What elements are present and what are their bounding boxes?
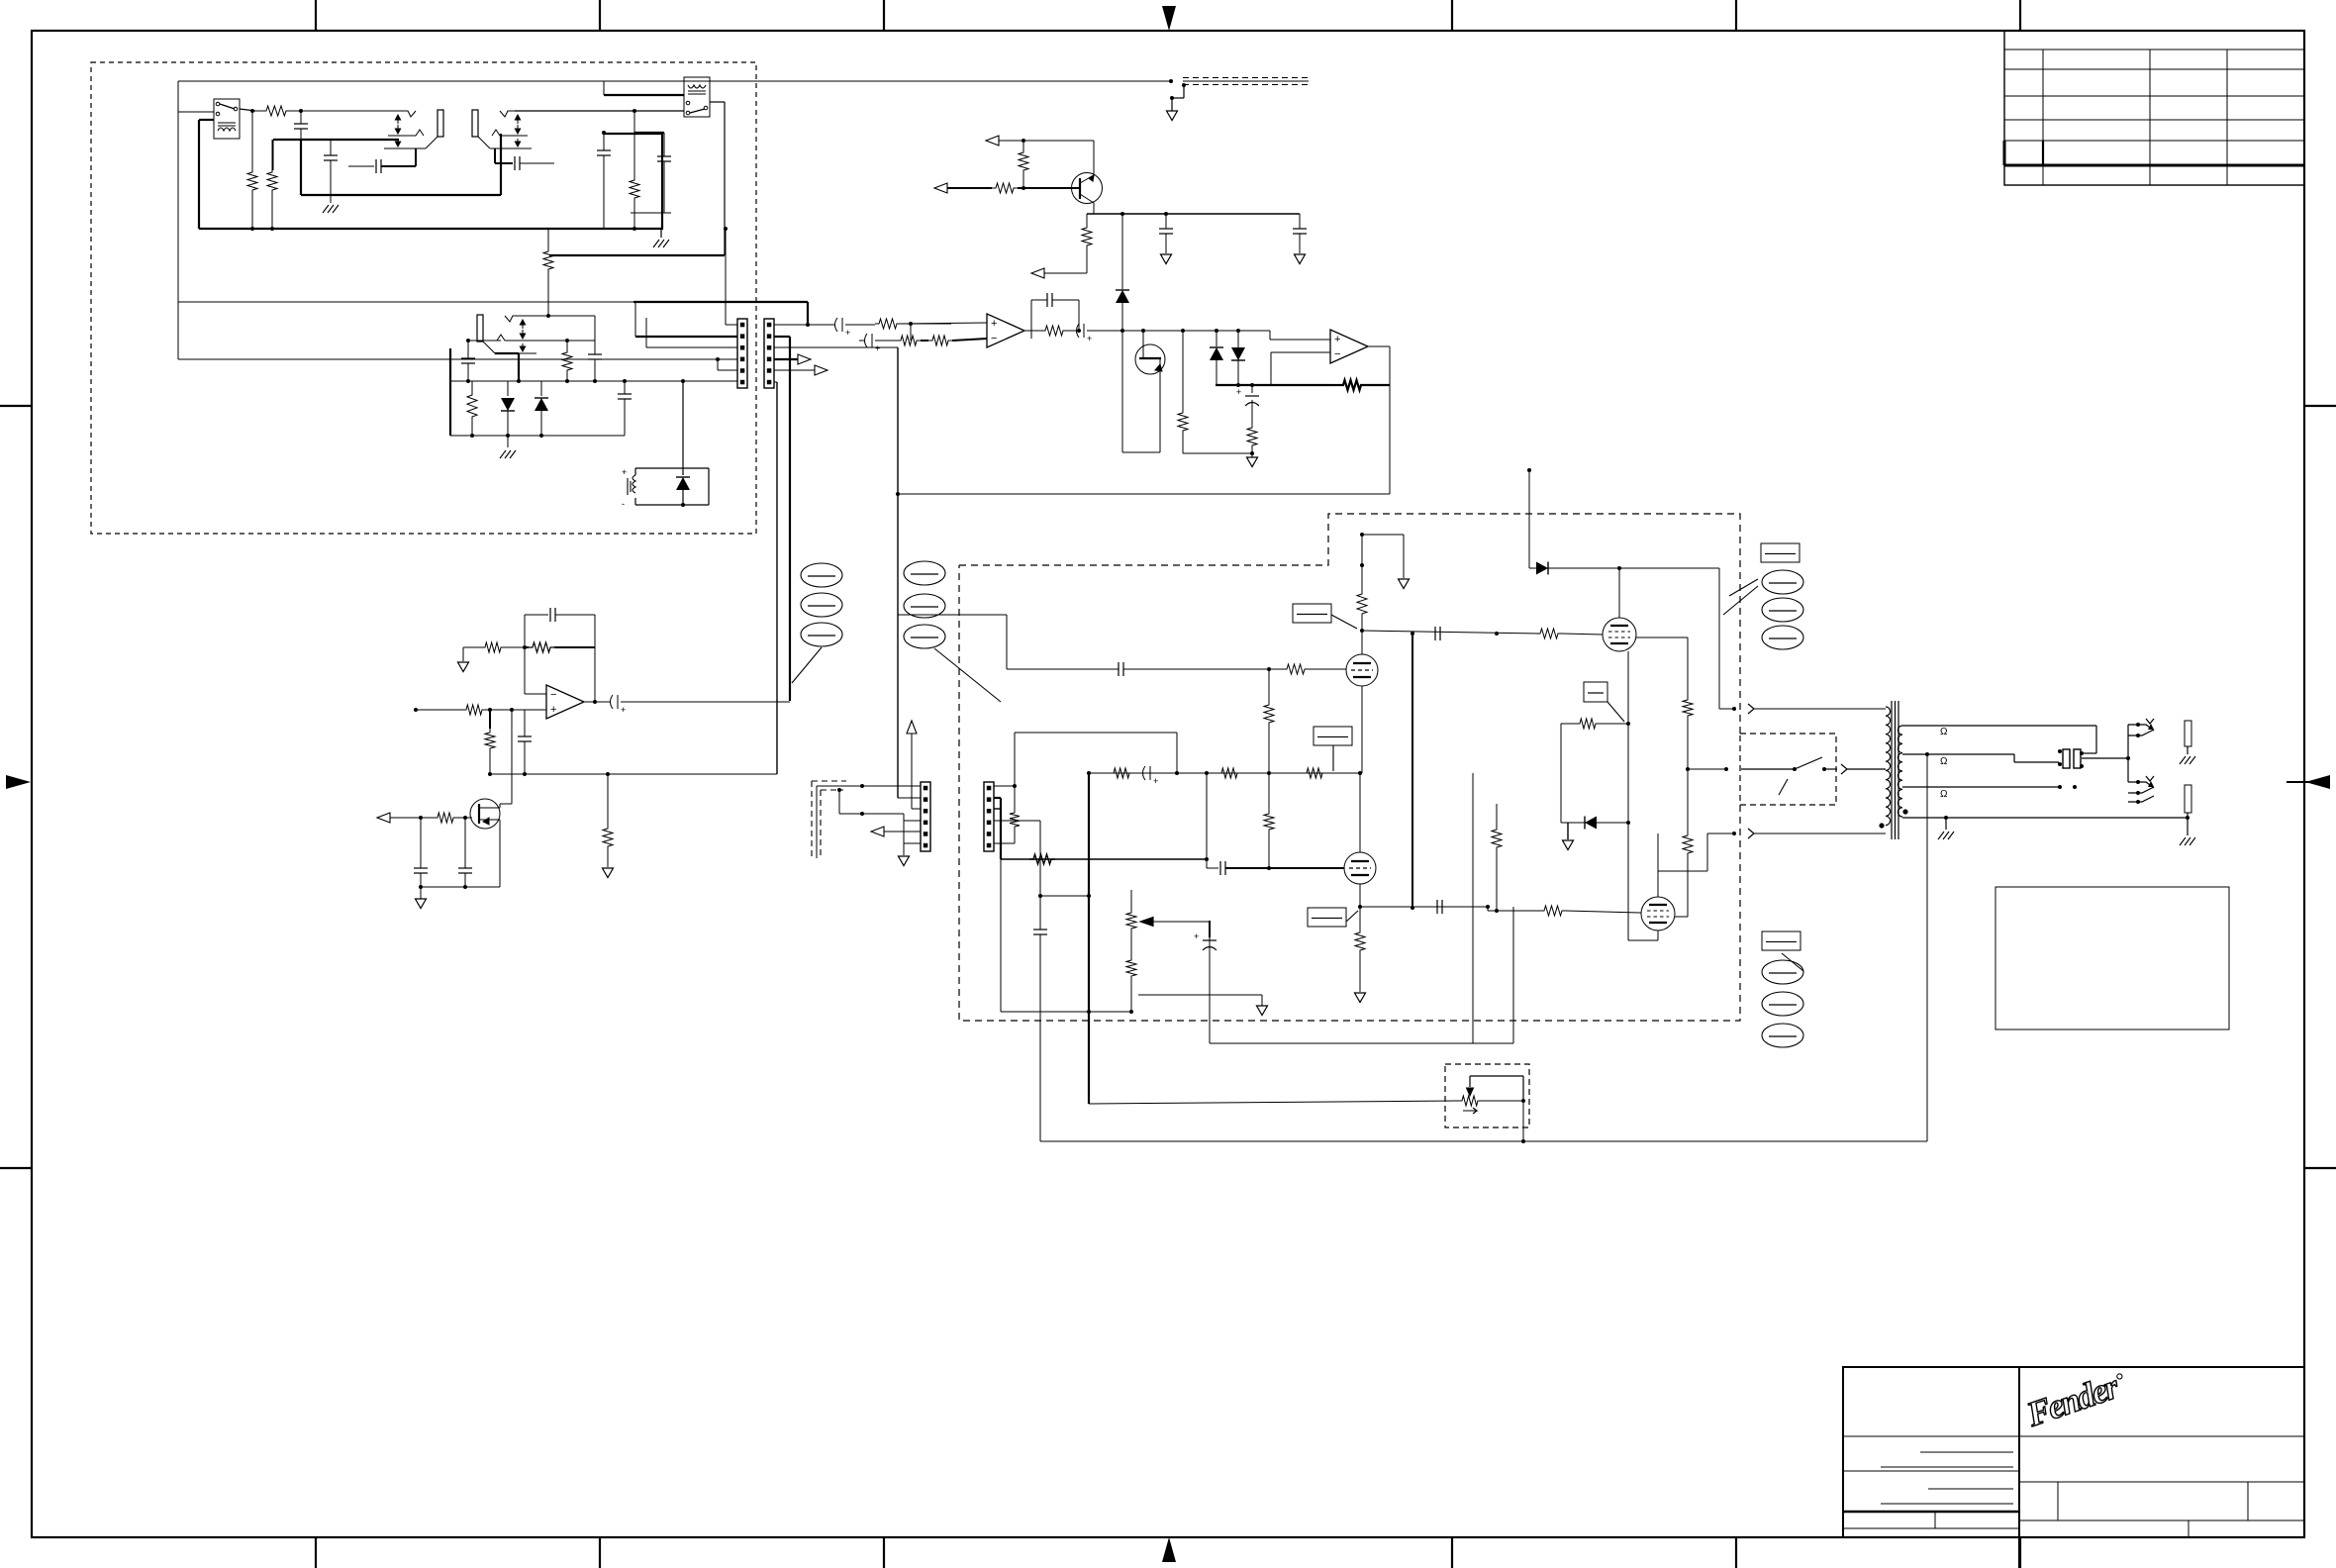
- input jack J1: [388, 111, 416, 117]
- resistor R37: [1496, 804, 1498, 826]
- resistor R34: [1683, 832, 1693, 857]
- svg-text:+: +: [1236, 387, 1241, 397]
- wire jack top: [533, 315, 595, 317]
- heater symbols: [801, 563, 842, 587]
- border tick marks: [315, 0, 317, 31]
- impedance switch: [1741, 768, 1795, 770]
- op-amp U2: [1330, 330, 1368, 363]
- switch thick: [495, 352, 519, 354]
- resistor R7: [547, 229, 549, 247]
- grid coupling V3B: [1206, 773, 1208, 868]
- svg-text:+: +: [1194, 931, 1199, 941]
- pentode V2 EL84: [1641, 897, 1675, 931]
- diode D4: [1121, 214, 1123, 289]
- electrolytic C17: [1209, 921, 1211, 937]
- capacitor C6: [633, 111, 635, 133]
- wire opamp U1 + input: [808, 324, 835, 326]
- resistor R2: [252, 110, 262, 112]
- wires out of P2: [774, 324, 808, 326]
- bias pot: [1126, 909, 1136, 932]
- footswitch cable shield dashed: [811, 781, 813, 858]
- feedback bus U2: [1216, 384, 1330, 386]
- capacitor C18: [1039, 896, 1041, 930]
- - input network: [910, 324, 912, 341]
- wire + input U2: [1269, 331, 1271, 340]
- resistor R36: [1540, 906, 1566, 916]
- svg-text:+: +: [1153, 776, 1158, 786]
- presence pot dashed box: [1445, 1064, 1529, 1127]
- resistor R11: [1086, 214, 1088, 224]
- jumper blocks: [2063, 749, 2070, 768]
- ground: [653, 240, 669, 247]
- wire long rail y364: [178, 358, 737, 360]
- + input: [414, 708, 418, 712]
- thick B wire: [1088, 773, 1090, 1104]
- emitter network: [1093, 203, 1095, 214]
- plate V3B: [1359, 773, 1361, 852]
- output transformer OT1: [1886, 707, 1891, 826]
- bottom rail: [450, 435, 625, 437]
- svg-text:+: +: [875, 343, 880, 353]
- resistor R30: [1217, 768, 1241, 778]
- preamp PCB dashed outline: [91, 62, 756, 534]
- ground: [323, 205, 339, 213]
- presence wire: [1089, 1101, 1458, 1104]
- capacitor C10: [1165, 214, 1167, 229]
- power amp dashed outline: [959, 514, 1740, 734]
- screen V2: [1675, 916, 1688, 918]
- diode D3: [682, 468, 684, 475]
- resistor R39: [1029, 854, 1055, 864]
- capacitor C13: [524, 710, 526, 736]
- bottom long wire: [1040, 1140, 1927, 1142]
- cathode rail V3A: [1361, 686, 1363, 773]
- capacitor C12: [1251, 385, 1253, 393]
- resistor R40: [1130, 932, 1132, 956]
- resistor R12: [875, 319, 901, 329]
- battery supply: [682, 381, 684, 468]
- resistor R17: [1247, 424, 1257, 449]
- relay K2: [684, 77, 710, 117]
- triode V3A: [1346, 654, 1378, 686]
- title block: [1843, 1367, 2304, 1537]
- svg-text:+: +: [621, 705, 626, 715]
- diode D5: [1216, 331, 1217, 346]
- screen resistor R35: [1584, 682, 1607, 702]
- connector P3: [921, 782, 930, 851]
- screen chain: [1636, 637, 1688, 638]
- jack J3: [477, 315, 483, 342]
- wire NFB loop: [898, 493, 1390, 495]
- connector P1: [737, 319, 747, 388]
- NFB loop lower: [1209, 921, 1211, 1043]
- wire jack mid: [533, 340, 595, 342]
- wire ground stub + earth: [1169, 79, 1173, 83]
- resistor R15: [1041, 326, 1067, 336]
- plate out wire: [1362, 631, 1540, 634]
- gate network: [377, 813, 390, 823]
- capacitor C8: [594, 341, 596, 354]
- capacitor C16: [1434, 627, 1436, 640]
- resistor R29: [1110, 768, 1133, 778]
- svg-text:−: −: [1334, 348, 1340, 360]
- resistor R4: [267, 168, 277, 194]
- bias rail: [1001, 1011, 1131, 1013]
- op-amp U3: [546, 685, 584, 719]
- svg-text:+: +: [1087, 334, 1092, 343]
- svg-text:−: −: [550, 689, 556, 701]
- svg-text:Ω: Ω: [1940, 756, 1948, 767]
- resistor R27: [1283, 664, 1309, 674]
- center arrows: [1162, 6, 1176, 31]
- footswitch wires: [816, 786, 818, 858]
- supply node V3A: [1361, 535, 1363, 590]
- presence pot: [1458, 1096, 1482, 1106]
- resistor R31: [1303, 768, 1326, 778]
- transistor Q1: [1072, 173, 1103, 204]
- capacitor C5: [603, 133, 605, 150]
- JFET Q4: [511, 710, 513, 804]
- mid rail: [450, 380, 737, 382]
- shielded pair dashed: [1183, 80, 1309, 82]
- resistor R19: [524, 646, 526, 648]
- capacitor C15: [464, 818, 466, 868]
- pentode V1 EL84: [1618, 568, 1620, 618]
- label: [1314, 727, 1352, 745]
- relay K1: [214, 99, 240, 139]
- input jack J2: [472, 110, 478, 137]
- NFB wire: [1001, 858, 1207, 860]
- label: [1293, 604, 1331, 623]
- svg-text:-: -: [622, 499, 625, 509]
- wire main top rail: [178, 80, 1171, 82]
- thick wire: [549, 254, 725, 256]
- zener D1: [507, 381, 509, 396]
- connector P4: [984, 782, 994, 851]
- svg-text:Ω: Ω: [1940, 789, 1948, 800]
- speaker jack J4: [2127, 725, 2129, 758]
- thick ground bus: [199, 119, 214, 121]
- thick bus segments ch2: [301, 194, 501, 196]
- resistor R21: [481, 642, 505, 652]
- resistor R28: [1536, 629, 1562, 638]
- thick wire: [273, 139, 399, 141]
- resistor R8: [566, 341, 568, 348]
- capacitor C2: [330, 140, 332, 155]
- speaker jack J5: [2127, 758, 2129, 782]
- wire reverb return: [490, 773, 777, 775]
- feedback loop U1: [1030, 300, 1032, 339]
- wires P4: [994, 785, 1015, 787]
- cathode V3B: [1359, 884, 1361, 907]
- svg-text:+: +: [1334, 334, 1340, 345]
- wires P3: [862, 785, 921, 787]
- tail chain: [1268, 669, 1270, 701]
- resistor R26 plate: [1357, 590, 1367, 618]
- cathode bus: [1627, 651, 1629, 940]
- resistor R32 cathode: [1359, 907, 1361, 929]
- resistor R18: [1182, 331, 1184, 409]
- earth + resistor R20: [458, 662, 469, 672]
- resistor R33: [1683, 696, 1693, 720]
- impedance switch dashed box: [1740, 734, 1836, 805]
- svg-text:−: −: [991, 333, 997, 344]
- resistor R3: [247, 168, 257, 194]
- diode D8: [1561, 822, 1585, 824]
- thick left leg: [449, 348, 451, 436]
- capacitor C14: [420, 818, 422, 868]
- tube labels: [1761, 543, 1800, 562]
- resistor R6: [630, 176, 639, 202]
- resistor R24: [434, 813, 457, 823]
- secondary taps: [1902, 725, 2096, 727]
- svg-text:+: +: [550, 704, 556, 716]
- output chain: [1024, 330, 1041, 332]
- notes rectangle: [1995, 887, 2229, 1029]
- grid wire: [1007, 668, 1119, 670]
- plate feeds to OT: [1718, 568, 1720, 709]
- svg-text:+: +: [845, 328, 850, 338]
- NFB from secondary: [1926, 754, 1928, 1141]
- output cap: [582, 701, 610, 703]
- capacitor C4: [494, 148, 496, 163]
- collector wire: [1093, 141, 1095, 175]
- long risers: [1411, 634, 1413, 908]
- wire: [515, 110, 684, 112]
- R23 divider: [489, 710, 491, 729]
- svg-text:Ω: Ω: [1940, 727, 1948, 737]
- diode D6: [1237, 331, 1239, 347]
- resistor R13: [897, 336, 921, 345]
- resistor R14: [921, 340, 928, 342]
- wire wiper: [1140, 918, 1153, 927]
- supply dot: [1527, 468, 1531, 472]
- capacitor C1: [299, 109, 303, 113]
- resistor R10: [1019, 148, 1028, 174]
- resistor R9: [467, 391, 477, 421]
- svg-text:+: +: [622, 467, 627, 477]
- resistor R25: [607, 774, 609, 825]
- wires into P1: [725, 229, 727, 325]
- resistor R16: [1339, 380, 1365, 390]
- grid wire V2: [1487, 907, 1489, 911]
- capacitor C9: [624, 381, 626, 394]
- base wire: [934, 183, 947, 193]
- resistor R38: [1014, 786, 1016, 809]
- op-amp U1: [987, 314, 1024, 347]
- feedback cap U3: [525, 614, 548, 616]
- revision table: [2004, 31, 2304, 185]
- wire: [240, 109, 255, 111]
- capacitor C11: [1299, 214, 1301, 229]
- output U2: [1368, 345, 1390, 347]
- long vertical runs: [789, 337, 791, 701]
- connector P2: [764, 319, 774, 388]
- ground: [507, 436, 509, 447]
- diode D7: [1529, 567, 1536, 569]
- JFET Q2: [1135, 344, 1165, 374]
- capacitor C7: [467, 341, 469, 358]
- svg-text:+: +: [991, 318, 997, 330]
- triode V3B: [1344, 852, 1376, 884]
- resistor R22: [462, 705, 486, 715]
- zener D2: [540, 381, 542, 396]
- capacitor C3: [348, 165, 374, 167]
- Fender logo: [2021, 1364, 2131, 1434]
- bias rail y781: [1089, 772, 1362, 774]
- label: [1308, 908, 1346, 927]
